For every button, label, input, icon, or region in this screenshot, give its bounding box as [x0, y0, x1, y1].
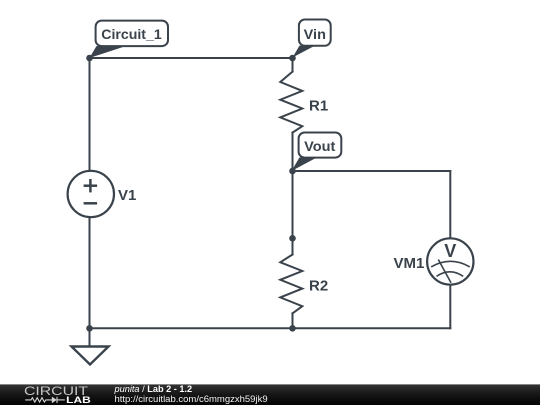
- node junction dot bottom rail at R2: [289, 325, 296, 332]
- logo resistor-diode symbol row: [25, 397, 65, 403]
- wire left vertical from node A down to V1 top: [89, 58, 91, 171]
- VM1 gauge lower arc: [437, 272, 464, 277]
- wire from V1 bottom down to ground junction: [89, 217, 91, 328]
- net label bubble Circuit_1: [96, 21, 168, 46]
- wire from Vin node down to R1 top: [292, 58, 294, 72]
- node Vout junction dot: [289, 168, 296, 175]
- resistor R1 zigzag body: [280, 72, 302, 133]
- svg-text:V: V: [444, 241, 456, 261]
- net label bubble Vin: [299, 20, 331, 46]
- wire from VM1 bottom to bottom rail: [449, 285, 451, 329]
- voltmeter VM1 circle: [427, 238, 473, 284]
- wire down right branch to VM1 top: [449, 171, 451, 238]
- node Vin junction dot: [289, 55, 296, 62]
- node A junction dot top-left: [86, 55, 93, 62]
- svg-text:Vout: Vout: [304, 138, 336, 154]
- footer black bar: [0, 384, 540, 405]
- wire from Vout node down to R2 top: [292, 171, 294, 255]
- net label bubble Vout tail: [292, 157, 318, 171]
- node ground junction dot: [86, 325, 93, 332]
- wire ground stub: [89, 328, 91, 346]
- svg-text:http://circuitlab.com/c6mmgzxh: http://circuitlab.com/c6mmgzxh59jk9: [115, 394, 268, 405]
- V1 plus sign: [84, 179, 98, 192]
- net label bubble Vout: [299, 133, 342, 158]
- wire from R2 bottom to bottom rail: [292, 313, 294, 328]
- svg-text:LAB: LAB: [66, 395, 91, 405]
- svg-text:Vin: Vin: [304, 26, 326, 42]
- voltage source V1 circle: [68, 171, 114, 217]
- svg-text:V1: V1: [118, 187, 136, 204]
- net label bubble Vin tail: [293, 46, 316, 58]
- VM1 gauge upper arc: [431, 261, 470, 267]
- resistor R2 zigzag body: [280, 255, 302, 314]
- wire bottom horizontal from ground junction to voltmeter branch: [90, 327, 451, 329]
- svg-text:R2: R2: [309, 277, 328, 294]
- logo diode triangle: [52, 397, 57, 404]
- node junction dot above R2: [289, 235, 296, 242]
- wire top horizontal from node A to Vin node: [90, 57, 293, 59]
- ground symbol: [72, 347, 109, 365]
- wire from Vout node right to voltmeter branch: [293, 170, 451, 172]
- VM1 needle: [438, 260, 451, 283]
- svg-text:R1: R1: [309, 98, 328, 115]
- svg-text:punita / Lab 2 - 1.2: punita / Lab 2 - 1.2: [114, 384, 193, 394]
- svg-text:Circuit_1: Circuit_1: [101, 26, 162, 42]
- net label bubble Circuit_1 tail: [89, 46, 126, 58]
- svg-text:VM1: VM1: [394, 255, 425, 272]
- wire from R1 bottom to Vout node: [292, 133, 294, 171]
- V1 minus sign: [84, 202, 98, 205]
